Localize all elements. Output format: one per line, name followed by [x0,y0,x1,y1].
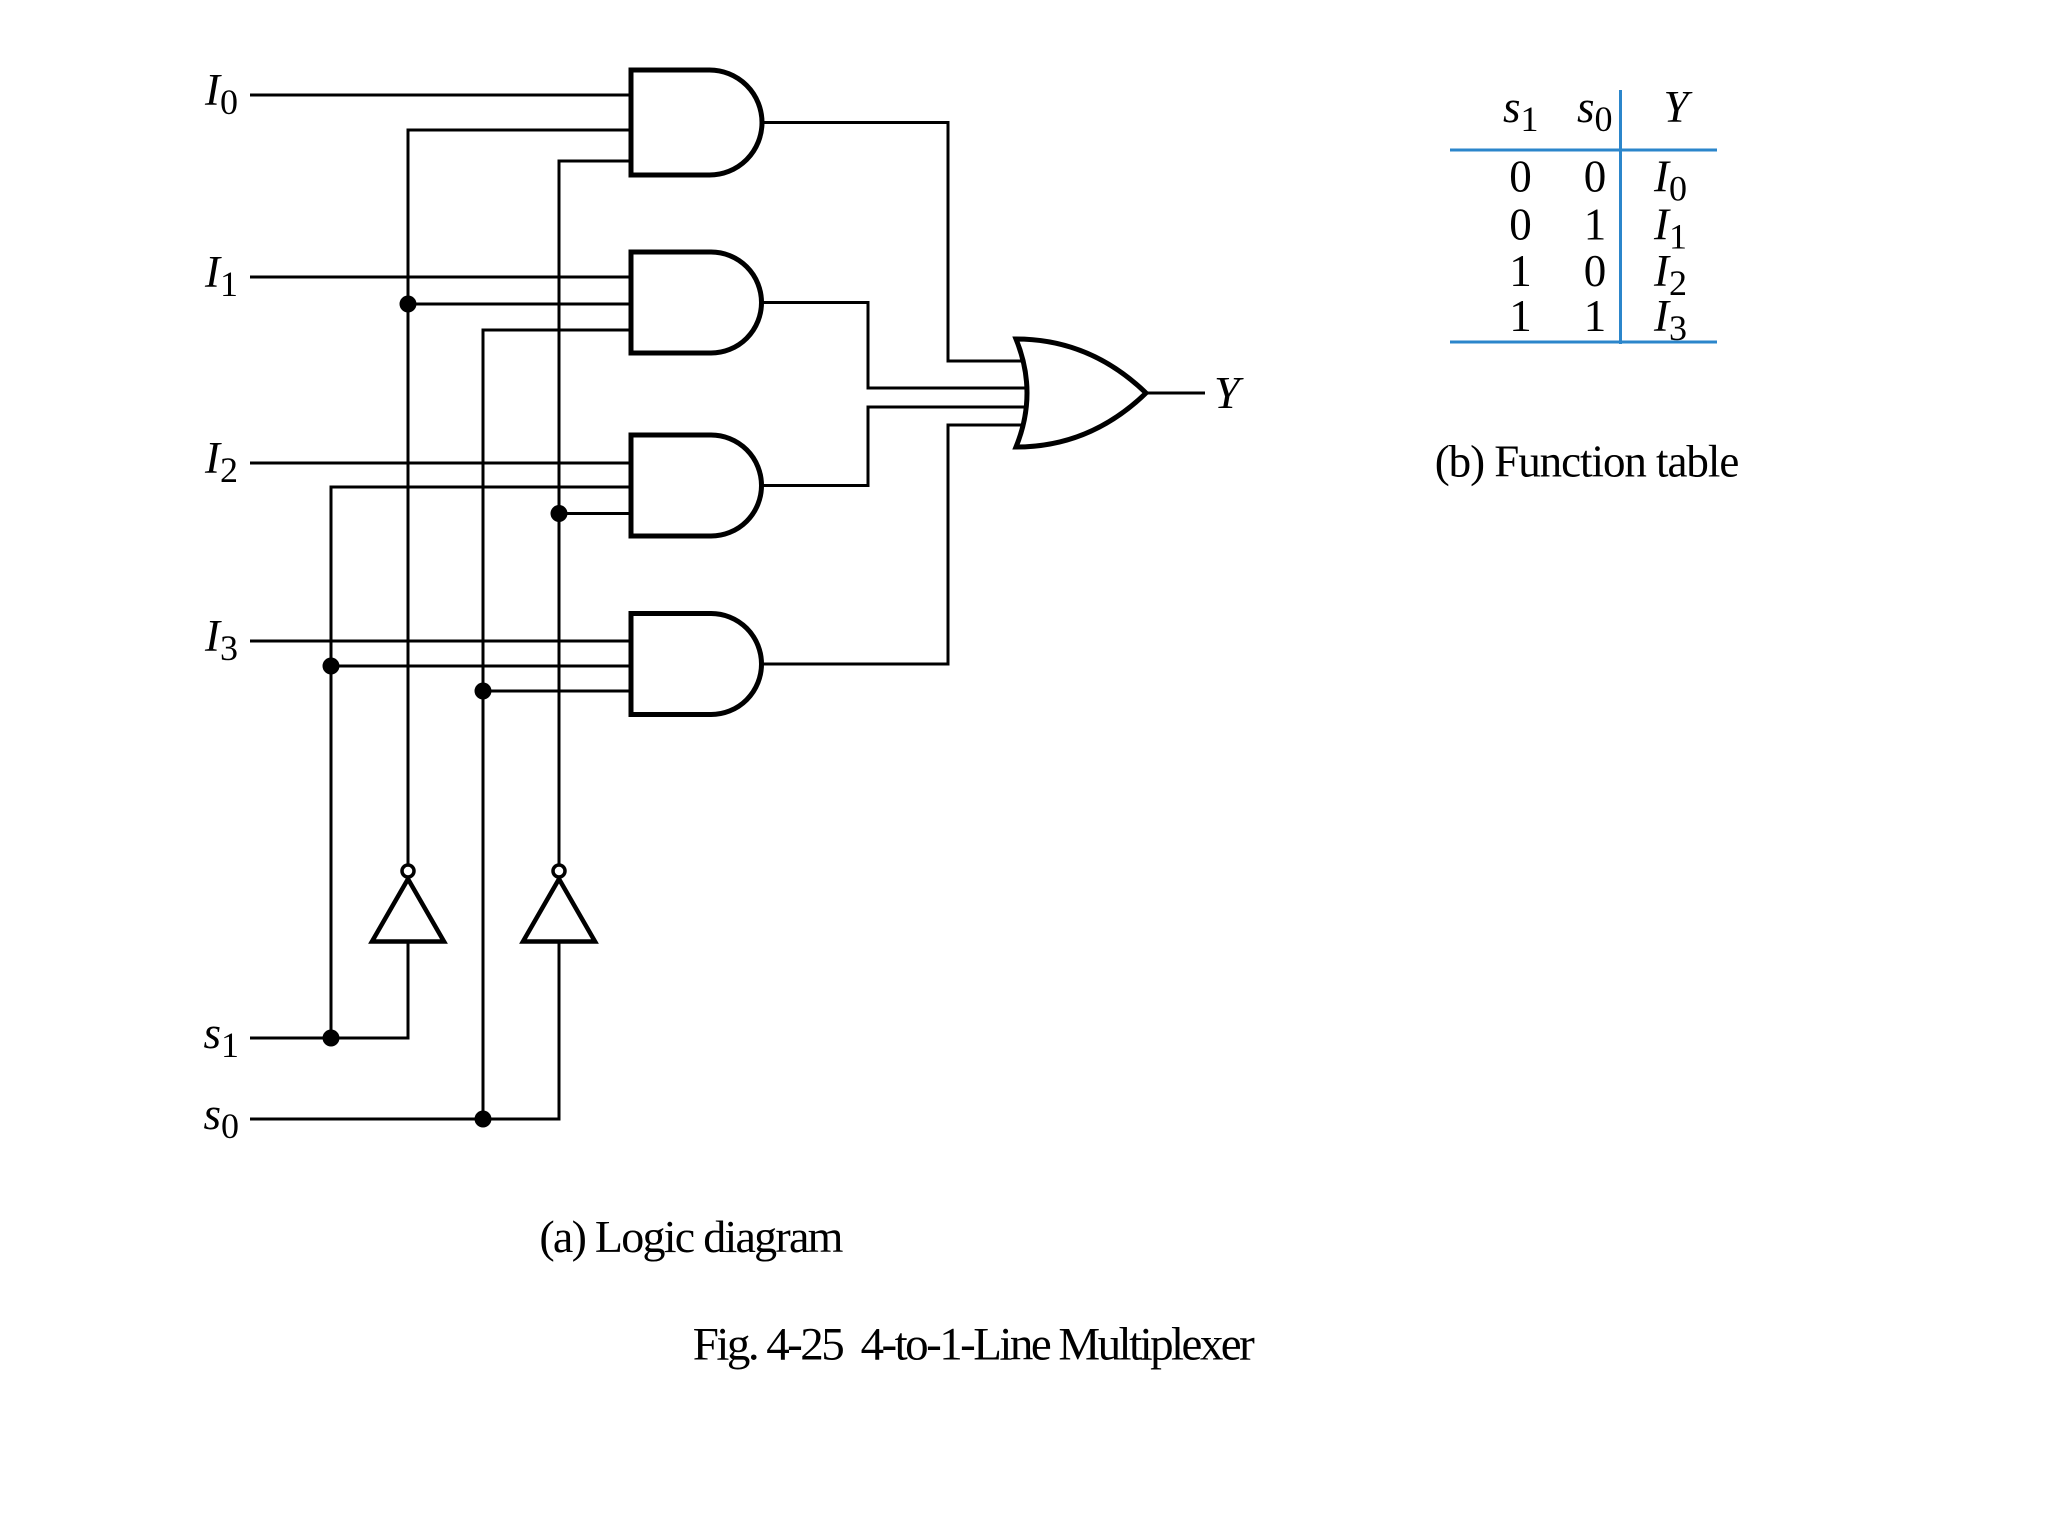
inverter 2 bubble [553,865,565,877]
svg-text:1: 1 [1584,291,1607,341]
wire s1 input run [250,941,408,1038]
svg-text:Fig. 4-25 4-to-1-Line Multipl: Fig. 4-25 4-to-1-Line Multiplexer [693,1319,1255,1371]
wire AND4 output to OR [760,425,1030,664]
svg-text:(b) Function table: (b) Function table [1435,437,1739,487]
inverter 1 bubble [402,865,414,877]
wire s1' inverter output to AND1 [408,130,633,864]
wire AND2 output to OR [760,303,1030,389]
svg-text:(a) Logic diagram: (a) Logic diagram [539,1211,843,1262]
wire s0' inverter output to AND1 [559,161,633,864]
svg-text:0: 0 [1509,152,1532,202]
wire AND1 output to OR [760,123,1030,362]
svg-text:0: 0 [1509,200,1532,250]
junction dot s0 to AND4 [475,683,492,700]
svg-text:Y: Y [1214,367,1244,418]
svg-text:0: 0 [1584,152,1607,202]
svg-text:1: 1 [1584,200,1607,250]
OR gate [1016,339,1146,447]
wire I0 input [250,94,633,97]
junction dot s1 line [323,1030,340,1047]
table rule horizontal top [1450,149,1717,152]
junction dot s1' to AND2 [400,296,417,313]
wire s0' branch to AND3 [559,512,633,515]
wire s0 branch to AND2 [483,330,633,1119]
wire s1 branch to AND4 [331,665,633,668]
junction dot s1 to AND4 [323,658,340,675]
wire s0 branch to AND4 [483,690,633,693]
svg-text:1: 1 [1509,291,1532,341]
junction dot s0' to AND3 [551,505,568,522]
AND gate 3 (I2·s1·s0') [631,435,762,536]
wire OR output Y [1146,392,1205,395]
AND gate 1 (I0·s1'·s0') [631,70,762,175]
inverter 2 (s0') triangle [523,879,595,942]
AND gate 2 (I1·s1'·s0) [631,252,762,353]
AND gate 4 (I3·s1·s0) [631,614,762,715]
junction dot s0 line [475,1111,492,1128]
wire s1 branch to AND3 [331,487,633,1038]
svg-text:1: 1 [1509,246,1532,296]
table rule vertical [1619,90,1622,344]
wire I3 input [250,640,633,643]
svg-text:0: 0 [1584,246,1607,296]
inverter 1 (s1') triangle [372,879,444,942]
wire I2 input [250,462,633,465]
wire s1' branch to AND2 [408,303,633,306]
wire AND3 output to OR [760,407,1030,486]
table rule horizontal bottom [1450,341,1717,344]
wire s0 input run [250,941,559,1119]
wire I1 input [250,276,633,279]
